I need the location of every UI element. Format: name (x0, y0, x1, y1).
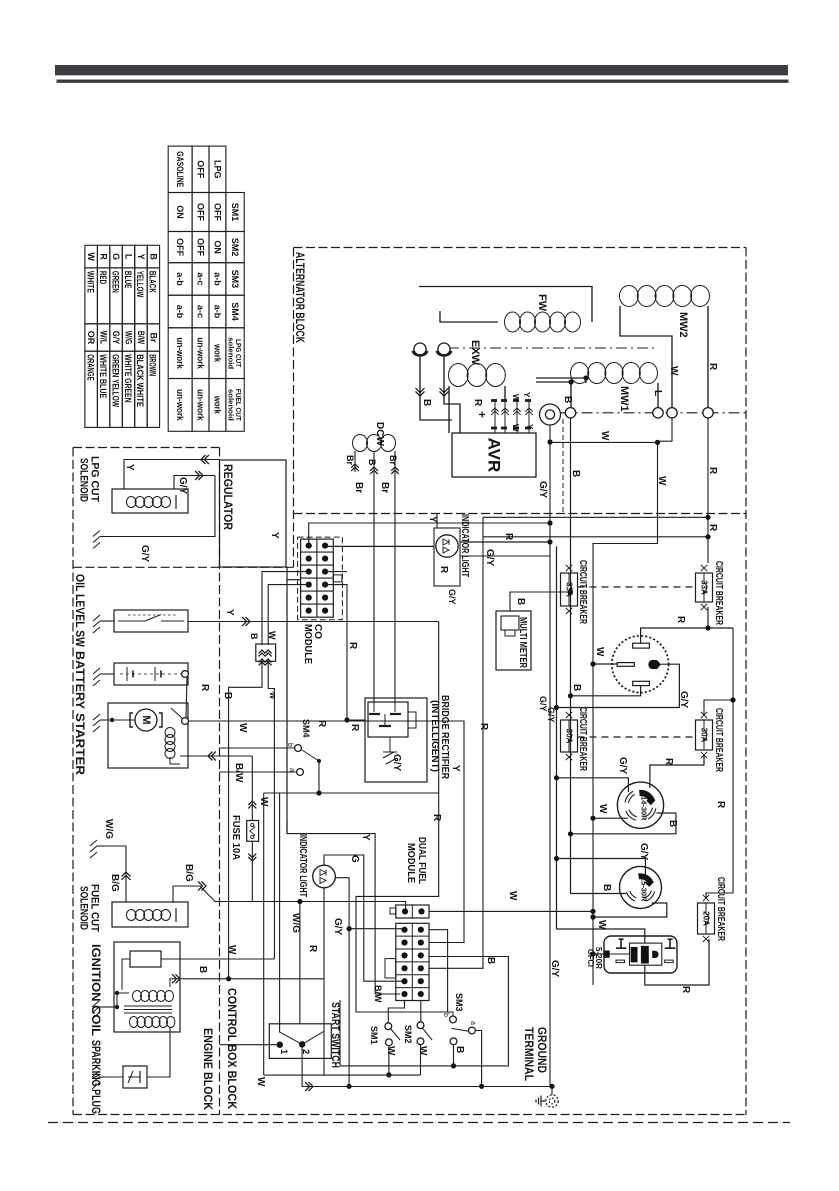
wire SM4 lever down (318, 761, 320, 793)
svg-text:B/W: B/W (373, 985, 383, 1003)
circuit breaker 30A right (696, 720, 713, 750)
svg-text:GREEN: GREEN (110, 271, 120, 293)
svg-text:B: B (570, 470, 581, 477)
wire CO row1R feed (325, 545, 434, 547)
wire CO row4 to connector W (268, 585, 309, 645)
wire CO row1 feed (309, 523, 550, 546)
svg-text:SM3: SM3 (454, 993, 464, 1012)
wire Y to module (287, 820, 400, 994)
svg-text:FW: FW (536, 294, 548, 312)
oil level switch box (114, 610, 188, 632)
svg-text:a: a (469, 1021, 476, 1025)
svg-text:Y: Y (522, 392, 531, 398)
svg-text:R: R (307, 945, 318, 953)
dual fuel module connector (396, 905, 429, 918)
svg-text:W: W (255, 1077, 266, 1087)
svg-text:Br: Br (148, 332, 158, 342)
wire contact1 feed (220, 1044, 277, 1046)
svg-text:b: b (442, 1013, 449, 1017)
engine/control divider dashed border (219, 448, 221, 1115)
svg-text:un-work: un-work (175, 389, 185, 421)
svg-text:Y: Y (224, 609, 235, 616)
svg-text:CIRCUIT BREAKER: CIRCUIT BREAKER (577, 707, 589, 771)
alternator block top dashed border (294, 247, 747, 249)
wire lpg Y (124, 460, 220, 490)
AVR connector pins (494, 399, 496, 433)
svg-text:R: R (663, 758, 674, 766)
wire W from connector (268, 661, 274, 959)
wire CO row3 to connector B (262, 572, 309, 645)
R bus top (707, 418, 709, 563)
AVR box (452, 433, 536, 477)
svg-text:B: B (222, 692, 233, 699)
svg-text:W: W (511, 394, 520, 402)
engine block left dashed border (72, 448, 74, 1115)
wire SM2 down (420, 1045, 422, 1075)
wire R indicator1 (460, 541, 550, 543)
alternator block left dashed border (293, 248, 295, 568)
svg-text:L: L (652, 390, 663, 396)
svg-text:INDICATOR LIGHT: INDICATOR LIGHT (297, 834, 308, 897)
multi meter box (496, 611, 531, 670)
fuse 10A (251, 756, 253, 821)
wire module B rect (340, 957, 508, 1066)
svg-text:ON: ON (175, 205, 185, 219)
svg-text:START SWITCH: START SWITCH (329, 1002, 341, 1068)
svg-text:Y: Y (450, 765, 461, 772)
svg-text:ENGINE BLOCK: ENGINE BLOCK (201, 1028, 215, 1110)
svg-text:B: B (571, 684, 582, 691)
svg-text:R: R (349, 724, 360, 732)
bridge rectifier outer box (365, 698, 427, 782)
svg-text:R: R (347, 642, 358, 650)
svg-text:B/G: B/G (183, 864, 194, 882)
ground oil (100, 620, 106, 622)
wire SM4 b (220, 747, 295, 749)
wire ignition B (170, 979, 185, 987)
svg-text:BROWN: BROWN (148, 354, 158, 376)
svg-text:R: R (503, 533, 514, 541)
svg-text:OR: OR (86, 331, 96, 345)
svg-text:OFF: OFF (196, 238, 206, 256)
start switch contacts (277, 1042, 283, 1048)
wire module W out (429, 910, 593, 912)
wire SM4 a (220, 771, 297, 773)
G/Y main bus (549, 425, 551, 1086)
svg-text:YELLOW: YELLOW (135, 271, 145, 298)
svg-text:ORANGE: ORANGE (85, 354, 95, 380)
LPG cut solenoid box (112, 489, 188, 513)
svg-text:w: w (268, 691, 278, 700)
terminal circle B (565, 408, 575, 418)
svg-text:30A: 30A (565, 729, 574, 744)
svg-text:Y: Y (269, 532, 280, 539)
svg-text:B: B (367, 459, 377, 466)
blocks bottom dashed border (73, 1114, 746, 1116)
indicator light 1 fixture (434, 528, 460, 586)
svg-text:R: R (680, 986, 691, 994)
svg-text:work: work (212, 343, 222, 363)
indicator light 1 lamp (436, 535, 458, 557)
svg-text:W: W (656, 476, 667, 486)
wire MW1 lead upper to AVR (536, 378, 586, 383)
circuit breaker 33A left (561, 573, 578, 606)
svg-text:B: B (197, 966, 208, 973)
wire lpg gnd loop (106, 476, 215, 537)
svg-text:SM2: SM2 (403, 1025, 413, 1044)
svg-text:LPG: LPG (212, 160, 222, 179)
circuit breaker 33A right (696, 573, 713, 602)
wire R to L14 (650, 755, 704, 788)
switch SM4 (295, 745, 302, 752)
wire brush2 to AVR (444, 355, 460, 433)
wire R to GFCI (645, 939, 709, 985)
svg-text:AVR: AVR (485, 438, 504, 473)
svg-text:W: W (594, 647, 605, 657)
svg-text:W/G: W/G (124, 331, 134, 345)
R jog right (706, 628, 733, 898)
svg-text:REGULATOR: REGULATOR (221, 464, 235, 530)
svg-text:B: B (601, 884, 612, 891)
ignition coil box (114, 942, 180, 1032)
svg-text:a-b: a-b (212, 305, 222, 319)
exciter terminal double circle (540, 404, 561, 425)
svg-text:SM1: SM1 (369, 1026, 379, 1045)
wire ground terminal (551, 1086, 553, 1095)
svg-text:OFF: OFF (196, 203, 206, 221)
wire B/G fuel run (173, 886, 406, 911)
svg-text:OFF: OFF (212, 203, 222, 221)
W jumper top (551, 441, 658, 443)
svg-text:Y: Y (360, 834, 371, 841)
svg-text:GROUND: GROUND (535, 1027, 547, 1073)
svg-text:W: W (226, 945, 237, 955)
wire module r1r (429, 930, 448, 1012)
charge winding DCW coil (353, 435, 368, 452)
CO module dashed outline (298, 537, 343, 620)
svg-text:a-c: a-c (196, 272, 206, 285)
svg-text:BLACK WHITE: BLACK WHITE (135, 354, 145, 407)
svg-text:work: work (212, 395, 222, 415)
wire R to 14-50R (708, 607, 733, 628)
control box right dashed border (745, 248, 747, 1116)
wire Y drop (356, 622, 454, 1013)
wire GY to 14-50R (557, 664, 680, 707)
wire W to 14-50R (593, 663, 617, 665)
svg-text:B: B (485, 957, 496, 964)
page header thick rule (55, 65, 788, 75)
ignition ground (99, 1006, 105, 1008)
svg-text:a-b: a-b (212, 272, 222, 286)
svg-text:B/W: B/W (136, 331, 146, 345)
starter box (108, 703, 188, 768)
svg-text:BLUE: BLUE (123, 271, 133, 289)
lpg-regulator bottom dashed border (73, 566, 294, 568)
receptacle 14-50R (612, 636, 669, 693)
svg-text:WHITE GREEN: WHITE GREEN (123, 354, 133, 402)
svg-text:Y: Y (124, 464, 135, 471)
svg-text:CONTROL BOX BLOCK: CONTROL BOX BLOCK (225, 988, 239, 1109)
svg-text:un-work: un-work (175, 337, 185, 369)
svg-text:RED: RED (98, 271, 108, 285)
battery symbol (120, 673, 182, 675)
wire W to L14 (593, 817, 628, 819)
svg-text:Y: Y (136, 254, 146, 260)
wire B to L14 (571, 813, 676, 834)
wire W to L5 (593, 903, 667, 917)
svg-text:B: B (148, 253, 158, 260)
DCW lead 2 B (373, 451, 375, 702)
start switch box (269, 1024, 331, 1059)
wire SM1 down (388, 1046, 390, 1075)
svg-text:G/Y: G/Y (332, 918, 343, 936)
engine block top dashed border (73, 447, 220, 449)
wire py793 (264, 792, 439, 794)
svg-text:un-work: un-work (196, 337, 206, 369)
wire W bottom run (264, 1074, 421, 1076)
svg-text:B/W: B/W (233, 763, 244, 783)
svg-text:MULTI METER: MULTI METER (517, 617, 528, 669)
svg-text:G/Y: G/Y (549, 960, 560, 978)
svg-text:W: W (267, 631, 277, 640)
svg-text:G/Y: G/Y (111, 331, 121, 345)
junction W/G (297, 899, 302, 904)
svg-text:L14-30R: L14-30R (640, 791, 649, 821)
svg-text:33A: 33A (565, 582, 574, 597)
wire B to 14-50R (571, 686, 641, 696)
regulator box (220, 460, 287, 567)
svg-text:INDICATOR LIGHT: INDICATOR LIGHT (459, 514, 470, 577)
main winding MW1 coil (571, 363, 589, 384)
W main bus (593, 442, 658, 985)
svg-text:1: 1 (278, 1049, 289, 1055)
main winding MW2 coil (620, 286, 639, 307)
svg-text:Br: Br (388, 455, 398, 465)
bridge rectifier plug (368, 702, 408, 737)
svg-text:a: a (288, 768, 295, 772)
wire W terminal drop (658, 418, 673, 441)
svg-text:G/Y: G/Y (139, 545, 150, 563)
svg-text:a-b: a-b (175, 272, 185, 286)
svg-text:B: B (421, 399, 432, 406)
circuit breaker 20A (698, 903, 715, 934)
wire CO row3R stub (325, 571, 347, 573)
svg-text:SOLENOID: SOLENOID (78, 458, 90, 502)
svg-text:M: M (140, 715, 152, 724)
svg-text:OFF: OFF (175, 238, 185, 256)
switch SM1 (385, 1023, 392, 1030)
wire Y oil-run (189, 621, 439, 623)
svg-text:R: R (472, 399, 483, 407)
stator terminal dash-dot line (561, 412, 747, 414)
CO module connector grid (301, 539, 334, 617)
wire SM3 a out (475, 1031, 481, 1087)
wire GY to L5 (557, 859, 646, 878)
svg-text:G: G (111, 253, 121, 260)
fuel cut solenoid box (112, 902, 188, 927)
svg-text:G: G (349, 855, 360, 863)
svg-text:30A: 30A (700, 728, 709, 743)
wire GY to GFCI (557, 929, 645, 943)
svg-text:BLACK: BLACK (148, 271, 158, 293)
breaker pair link 1 (578, 586, 696, 588)
svg-text:MODULE: MODULE (405, 843, 416, 883)
B bus (570, 418, 572, 894)
starter assembly (135, 709, 157, 731)
wire CO row4R to rectifier R (325, 585, 347, 720)
svg-text:SM3: SM3 (230, 270, 240, 289)
table wire-colour legend (147, 245, 159, 268)
svg-text:B/G: B/G (109, 874, 120, 892)
wire Y into indicator1 (436, 514, 438, 528)
breaker pair link 2 (578, 736, 696, 738)
wire ignition W (161, 958, 274, 960)
svg-text:OIL LEVEL SW: OIL LEVEL SW (73, 574, 87, 648)
svg-text:R: R (675, 616, 686, 624)
svg-text:solenoid: solenoid (226, 389, 235, 421)
switch SM2 (417, 1022, 424, 1029)
svg-text:W: W (597, 804, 608, 814)
bridge rectifier ground lead (389, 737, 391, 752)
switch SM3 (450, 1016, 457, 1023)
svg-text:B: B (454, 1046, 465, 1053)
svg-text:R: R (438, 566, 449, 574)
svg-text:R: R (715, 801, 726, 809)
svg-text:ON: ON (212, 240, 222, 254)
svg-text:W: W (511, 424, 520, 432)
ground plug (99, 1076, 105, 1078)
svg-text:R: R (707, 467, 718, 475)
svg-text:W: W (417, 1046, 428, 1056)
G/Y recpt bus (556, 546, 558, 929)
svg-text:R: R (707, 524, 718, 532)
svg-text:B: B (515, 598, 526, 605)
svg-text:DUAL FUEL: DUAL FUEL (416, 837, 427, 884)
svg-text:W/G: W/G (103, 819, 114, 839)
svg-text:Y: Y (427, 516, 438, 523)
svg-text:CIRCUIT BREAKER: CIRCUIT BREAKER (713, 708, 725, 772)
svg-text:un-work: un-work (196, 389, 206, 421)
svg-text:33A: 33A (700, 580, 709, 595)
svg-text:G/Y: G/Y (546, 707, 556, 723)
terminal dashed drop (562, 419, 564, 514)
svg-text:GASOLINE: GASOLINE (175, 151, 185, 187)
svg-text:TERMINAL: TERMINAL (522, 1027, 534, 1081)
DCW lead 1 (354, 451, 356, 472)
ground lpg (100, 536, 106, 538)
R feed horizontal 2 (483, 536, 708, 538)
field winding FW coil (505, 312, 521, 332)
svg-text:GREEN YELLOW: GREEN YELLOW (110, 354, 120, 407)
svg-text:W: W (237, 723, 248, 733)
battery box (114, 663, 188, 685)
wire WG ground lead (97, 845, 103, 847)
wire R ind2 (323, 888, 325, 1075)
svg-text:W: W (385, 1046, 396, 1056)
svg-text:R: R (199, 684, 210, 692)
ground battery (100, 673, 106, 675)
ground terminal symbol (546, 1095, 558, 1107)
R feed horizontal 1 (483, 516, 708, 518)
svg-text:L: L (124, 254, 134, 260)
wire SM3 b up (452, 1012, 454, 1016)
terminal circle R (703, 408, 713, 418)
ignition primary (130, 951, 161, 967)
svg-text:SM4: SM4 (301, 719, 311, 738)
svg-text:solenoid: solenoid (226, 337, 235, 369)
svg-text:CIRCUIT BREAKER: CIRCUIT BREAKER (577, 560, 589, 624)
page header thin rule (57, 80, 789, 83)
svg-text:Y: Y (525, 424, 534, 430)
wire B from connector (229, 661, 262, 979)
wire W/G drop (299, 902, 301, 1024)
svg-text:G/Y: G/Y (678, 691, 689, 709)
svg-text:CIRCUIT BREAKER: CIRCUIT BREAKER (713, 561, 725, 625)
svg-text:WHITE BLUE: WHITE BLUE (98, 354, 108, 398)
svg-text:MODULE: MODULE (302, 624, 313, 664)
svg-text:MW1: MW1 (618, 386, 630, 412)
svg-text:G/Y: G/Y (617, 757, 628, 775)
DCW lead 3 Br (394, 451, 396, 702)
svg-text:G/Y: G/Y (638, 843, 649, 861)
multi meter plug (501, 616, 519, 630)
W column down (263, 793, 265, 1075)
brush slip-ring 2 (438, 343, 450, 355)
wire GY to L14 (557, 778, 629, 792)
wire W starter long (189, 721, 465, 943)
wire SM3 B down (453, 1045, 455, 1066)
page bottom dashed rule (48, 1122, 790, 1124)
svg-text:G/Y: G/Y (447, 589, 457, 605)
brush slip-ring 1 (414, 343, 426, 355)
svg-text:a-c: a-c (196, 305, 206, 318)
svg-text:EXW: EXW (469, 340, 481, 366)
svg-text:W: W (258, 797, 269, 807)
wire R to bridge (347, 719, 365, 721)
svg-text:SM4: SM4 (230, 302, 240, 321)
svg-text:SPARKING PLUG: SPARKING PLUG (89, 1040, 103, 1114)
wire W to GFCI (593, 953, 604, 955)
svg-text:G/Y: G/Y (484, 549, 495, 567)
svg-text:SM2: SM2 (230, 238, 240, 257)
svg-text:SM1: SM1 (230, 203, 240, 222)
GFCI outlet 5-20R (604, 936, 677, 973)
wire MW1 lead lower to AVR B (536, 382, 571, 408)
wire GY indicator1 (460, 555, 550, 557)
svg-text:20A: 20A (702, 911, 711, 926)
svg-text:R: R (99, 253, 109, 260)
wire brush1 to AVR B (420, 355, 452, 420)
wire Y riser (286, 567, 288, 834)
svg-text:ALTERNATOR BLOCK: ALTERNATOR BLOCK (293, 252, 307, 343)
svg-text:a-b: a-b (175, 305, 185, 319)
wire battery R (186, 678, 187, 718)
sparking plug box (123, 1066, 147, 1088)
svg-text:R: R (431, 814, 442, 822)
ground starter (100, 719, 106, 721)
svg-text:Br: Br (353, 482, 364, 493)
wire B multimeter (510, 592, 571, 611)
circuit breaker 30A left (561, 720, 578, 752)
wire ignition secondary (170, 1021, 173, 1023)
R feed 30A (704, 700, 733, 715)
svg-text:DCW: DCW (374, 422, 385, 446)
indicator light 2 lamp (313, 865, 336, 888)
svg-text:B: B (249, 633, 259, 640)
exciter winding EXW coil (449, 364, 469, 387)
svg-text:B: B (562, 396, 573, 403)
svg-text:G/Y: G/Y (177, 477, 188, 495)
